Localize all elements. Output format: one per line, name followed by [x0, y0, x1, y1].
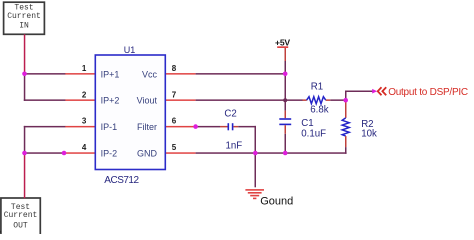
wire: C2 right to corner then down to ground rail: [238, 126, 256, 154]
wire: R1 to output junction (horizontal): [330, 99, 346, 101]
svg-text:Current: Current: [7, 12, 41, 21]
resistor R2 zigzag: [342, 118, 349, 136]
wire: pin8 to +5V rail (horizontal): [196, 73, 286, 75]
stray mark bottom-left image edge: [0, 231, 1, 233]
wire: +5V rail pin8 row to C1 top (vertical): [285, 75, 287, 111]
pin 3 stub (IP-1): [65, 126, 95, 128]
svg-text:6: 6: [172, 117, 177, 126]
junction dot C2 corner/ground rail: [253, 151, 258, 156]
svg-text:Current: Current: [4, 211, 38, 220]
port chevrons << (red): [378, 87, 387, 95]
wire: IN box down to pin1 junction (vertical crimson): [24, 34, 26, 74]
junction dot pin6 stub end: [193, 124, 198, 129]
resistor R2 lead bottom: [345, 136, 347, 147]
pin 7 stub (Viout): [165, 99, 195, 101]
wire: pin4 junction down to OUT box (vertical crimson): [24, 152, 26, 198]
pin 6 stub (Filter): [165, 126, 195, 128]
svg-text:IP-1: IP-1: [101, 122, 118, 132]
svg-text:+5V: +5V: [275, 38, 290, 48]
svg-text:3: 3: [82, 117, 87, 126]
resistor R1 lead left: [303, 99, 307, 101]
junction dot rail/pin8: [283, 72, 288, 77]
wire: junction to pin4 (horizontal): [24, 152, 66, 154]
capacitor C1 lead (bottom, red): [285, 125, 287, 134]
svg-text:8: 8: [172, 64, 177, 73]
pin 5 stub (GND): [165, 152, 195, 154]
svg-text:7: 7: [172, 90, 177, 99]
op-amp style IC body U1: [95, 45, 165, 186]
wire: C1 bottom to ground rail (vertical): [285, 134, 287, 154]
svg-text:1nF: 1nF: [226, 140, 243, 151]
capacitor C2 lead left: [220, 126, 228, 128]
pin 2 stub (IP+2): [65, 99, 95, 101]
svg-text:Output to DSP/PIC: Output to DSP/PIC: [388, 87, 468, 98]
pin 4 stub (IP-2): [65, 152, 95, 154]
svg-text:U1: U1: [124, 45, 136, 55]
wire: pin1 junction down to pin2 corner (vertical): [24, 73, 26, 101]
svg-text:ACS712: ACS712: [104, 175, 139, 186]
svg-text:IP+2: IP+2: [101, 96, 120, 106]
svg-text:5: 5: [172, 143, 177, 152]
svg-text:GND: GND: [137, 149, 158, 159]
svg-text:OUT: OUT: [13, 222, 28, 231]
svg-text:IN: IN: [19, 21, 29, 30]
connector box: Test Current IN: [4, 2, 45, 34]
pin 1 stub (IP+1): [65, 73, 95, 75]
wire: junction to pin1 (horizontal): [24, 73, 66, 75]
svg-text:6.8k: 6.8k: [310, 105, 328, 116]
capacitor C1 plates: [279, 118, 291, 125]
svg-text:C1: C1: [301, 118, 313, 129]
svg-text:2: 2: [82, 90, 87, 99]
dark crossing dot rail/pin7: [283, 98, 287, 102]
junction dot pin4 stub end: [62, 151, 67, 156]
ground symbol bars: [245, 189, 264, 199]
pin 8 stub (Vcc): [165, 73, 195, 75]
svg-text:Filter: Filter: [137, 122, 157, 132]
junction dot R1/output: [343, 98, 348, 103]
port arrow (magenta): [372, 89, 377, 94]
resistor R2 lead top: [345, 101, 347, 118]
svg-text:Viout: Viout: [137, 96, 158, 106]
wire: +5V stem down to pin8 row (vertical, x=285.2): [285, 61, 287, 74]
svg-text:IP-2: IP-2: [101, 149, 118, 159]
wire: ground rail (horizontal, pin5 to R2 bottom corner): [196, 152, 347, 154]
wire: pin6 to C2 (horizontal): [196, 126, 220, 128]
svg-text:Vcc: Vcc: [142, 69, 158, 79]
junction dot at IN/pin1: [22, 72, 27, 77]
wire: pin7 to R1 (horizontal): [196, 99, 303, 101]
svg-text:10k: 10k: [361, 128, 377, 139]
resistor R1 lead right: [326, 99, 331, 101]
junction dot at OUT/pin4: [22, 151, 27, 156]
capacitor C2 plates: [228, 123, 234, 130]
resistor R1 zigzag: [307, 97, 326, 104]
svg-text:R1: R1: [311, 81, 323, 92]
svg-text:0.1uF: 0.1uF: [301, 129, 326, 140]
connector box: Test Current OUT: [1, 198, 40, 235]
ground stem: [255, 154, 257, 188]
svg-text:IP+1: IP+1: [101, 69, 120, 79]
wire: output horizontal to port: [345, 91, 374, 93]
svg-text:4: 4: [82, 143, 87, 152]
capacitor C1 lead (top, red): [285, 111, 287, 119]
wire: pin3 corner down to pin4 junction (vertical, x=24.5): [24, 126, 26, 154]
power symbol +5V: [275, 38, 290, 62]
svg-text:C2: C2: [224, 109, 236, 120]
svg-text:1: 1: [82, 64, 87, 73]
wire: output junction up (vertical, x=345.7): [345, 91, 347, 101]
wire: corner to pin3 (horizontal): [24, 126, 66, 128]
junction dot rail/ground rail: [283, 151, 288, 156]
svg-text:Gound: Gound: [260, 196, 293, 208]
wire: corner to pin2 (horizontal): [24, 99, 66, 101]
wire: R2 bottom to ground rail: [345, 147, 347, 154]
capacitor C2 lead right: [233, 126, 238, 128]
